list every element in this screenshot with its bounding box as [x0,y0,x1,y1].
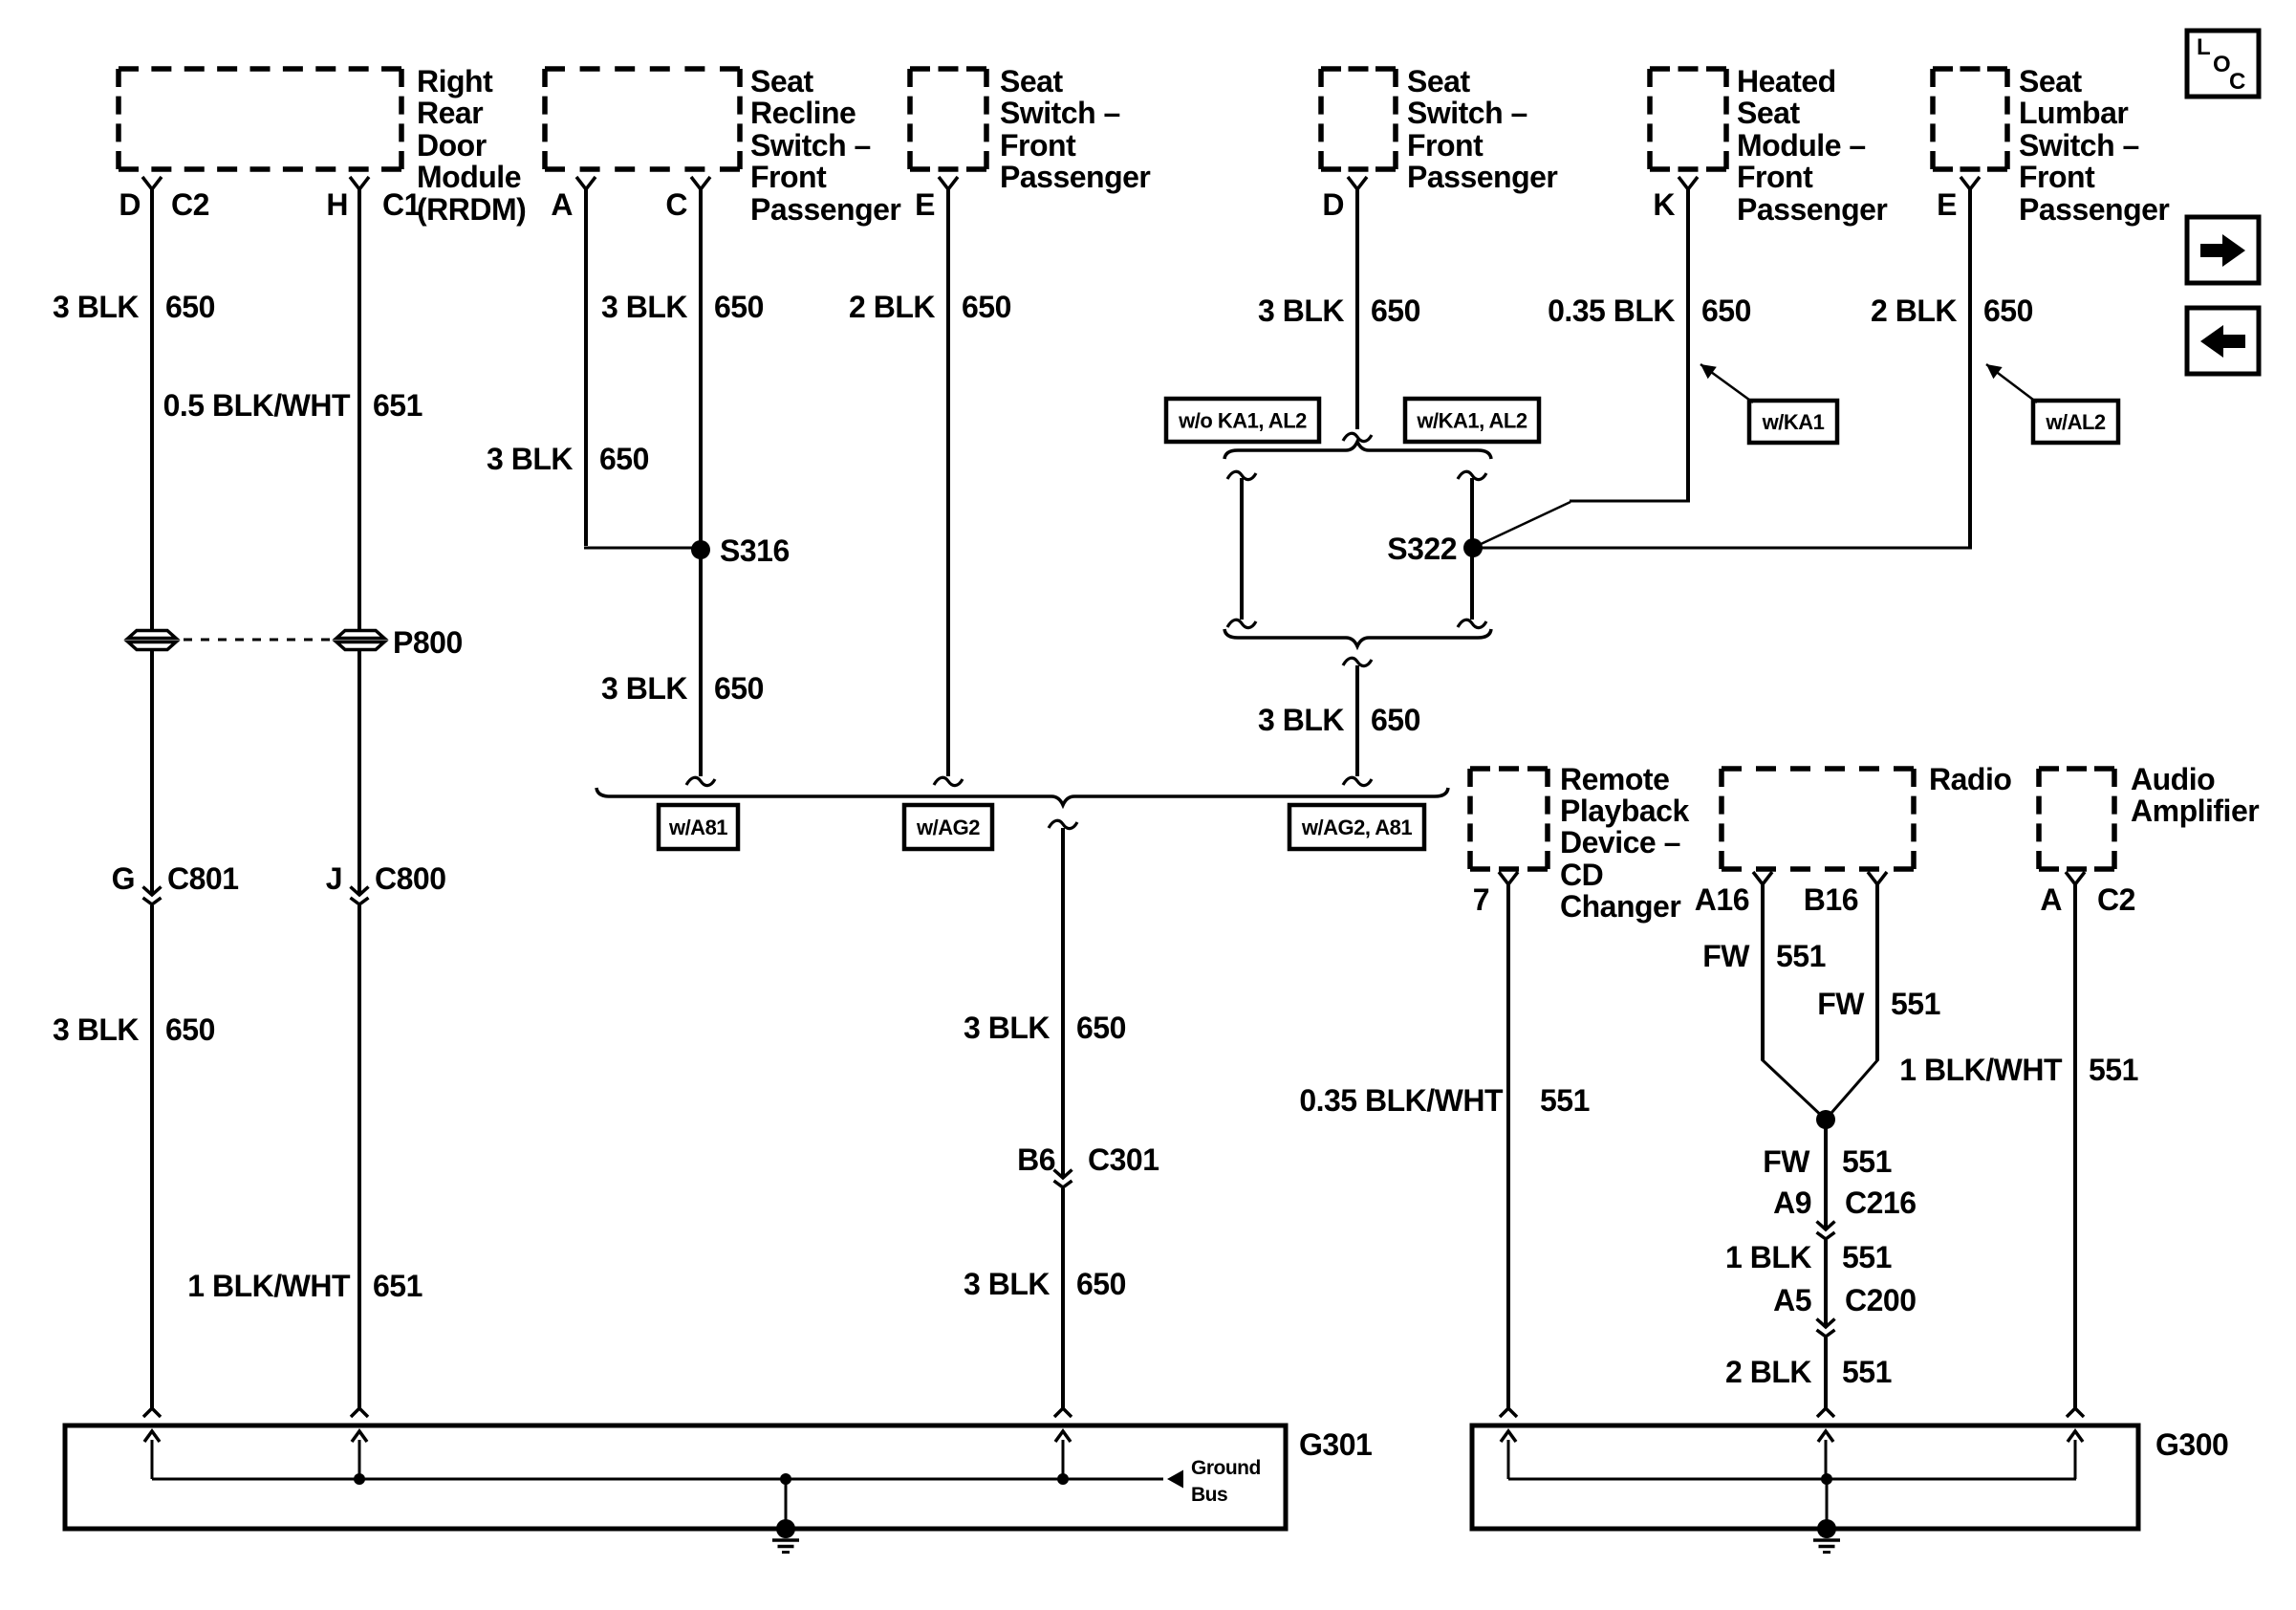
svg-text:Switch –: Switch – [2019,128,2139,163]
label FW 551 (merged wire) [1763,1144,1892,1179]
option box w/KA1 [1749,401,1837,443]
connector C216 pin A9 [1773,1186,1916,1239]
svg-text:2 BLK: 2 BLK [1725,1355,1811,1389]
svg-text:650: 650 [1983,294,2033,328]
svg-text:A: A [2040,882,2062,917]
option pointer w/KA1 [1700,364,1753,402]
svg-text:Playback: Playback [1560,794,1689,828]
svg-text:Passenger: Passenger [1737,192,1887,227]
pin A of recline switch [551,177,596,222]
svg-text:Seat: Seat [1000,64,1063,98]
wire from seat switch pin D [1355,189,1359,429]
svg-text:B16: B16 [1804,882,1858,917]
label 1 BLK 551 [1725,1240,1892,1274]
svg-text:C2: C2 [2097,882,2135,917]
svg-text:G301: G301 [1299,1427,1372,1462]
wire option left branch [1227,471,1256,627]
option box w/AG2 [904,805,992,849]
option box w/KA1, AL2 [1405,399,1539,442]
wire 651 BLK/WHT from RRDM pin H [357,189,361,629]
wire 0.35 BLK/WHT 551 from pin 7 [1506,884,1510,1408]
svg-text:FW: FW [1763,1144,1810,1179]
svg-text:1 BLK/WHT: 1 BLK/WHT [187,1269,351,1303]
svg-text:C2: C2 [171,187,209,222]
svg-text:C800: C800 [375,861,446,896]
legend right-arrow box [2187,217,2259,283]
svg-text:3 BLK: 3 BLK [1258,703,1344,737]
svg-text:1 BLK: 1 BLK [1725,1240,1811,1274]
svg-text:650: 650 [1371,703,1420,737]
svg-text:S322: S322 [1387,532,1457,566]
connector C2 label (amplifier) [2097,882,2135,917]
svg-text:E: E [1937,187,1957,222]
ground bus internal line G300 [1508,1478,2076,1481]
label 3 BLK 650 (below underbrace) [1258,703,1420,737]
svg-text:Seat: Seat [1407,64,1470,98]
wire option right branch through S322 [1458,471,1486,627]
svg-text:551: 551 [2089,1053,2138,1087]
svg-text:A: A [551,187,573,222]
pin A16 of radio [1695,872,1772,917]
svg-text:Remote: Remote [1560,762,1669,796]
svg-text:L: L [2197,34,2210,60]
svg-text:G300: G300 [2155,1427,2228,1462]
svg-text:650: 650 [1701,294,1751,328]
svg-text:3 BLK: 3 BLK [53,290,139,324]
svg-text:Passenger: Passenger [750,192,900,227]
wire below P800 right [357,651,361,895]
svg-text:Seat: Seat [2019,64,2082,98]
label G301 [1299,1427,1372,1462]
svg-text:FW: FW [1817,987,1865,1021]
option pointer w/AL2 [1986,364,2037,402]
wire 650 BLK from bus brace down [1061,828,1065,1178]
ground entry arrow G300 left [1501,1431,1516,1479]
wire 2 BLK 551 to G300 [1824,1338,1828,1408]
ground entry arrow G300 mid [1818,1431,1833,1479]
pin D of RRDM [119,177,162,222]
wire 650 from heated seat pin K [1477,189,1690,546]
label 3 BLK 650 (pin C wire lower) [601,671,764,706]
svg-text:551: 551 [1842,1144,1892,1179]
svg-text:Module –: Module – [1737,128,1866,163]
label 3 BLK 650 (pin A wire) [487,442,649,476]
wire 1 BLK 551 [1824,1240,1828,1327]
svg-text:J: J [326,861,342,896]
svg-text:650: 650 [714,290,764,324]
svg-text:3 BLK: 3 BLK [964,1011,1050,1045]
pin E of lumbar switch [1937,177,1980,222]
svg-text:Passenger: Passenger [1407,160,1557,194]
connector C801 pin G [112,861,239,904]
svg-text:Front: Front [2019,160,2095,194]
svg-text:O: O [2213,52,2230,77]
connector C2 label [171,187,209,222]
label 2 BLK 650 (pin E lumbar wire) [1871,294,2033,328]
label G300 [2155,1427,2228,1462]
svg-text:650: 650 [1076,1011,1126,1045]
svg-text:C301: C301 [1088,1142,1159,1177]
svg-text:Device –: Device – [1560,825,1680,859]
label 3 BLK 650 (bus wire lower) [964,1267,1126,1301]
option overbrace above S322 block [1224,442,1491,459]
svg-text:3 BLK: 3 BLK [601,671,687,706]
svg-text:w/AG2: w/AG2 [916,816,980,839]
svg-text:551: 551 [1776,939,1826,973]
ground bus internal line G301 [152,1478,1163,1481]
connector P800 grommet left [128,631,176,650]
legend left-arrow box [2187,308,2259,374]
wire break below underbrace [1343,658,1372,665]
label 0.5 BLK/WHT 651 (pin H wire) [163,388,422,423]
ground connection G300 [1813,1473,1840,1553]
wire from seat switch pin E [946,189,950,776]
option box w/AL2 [2033,401,2118,443]
switch Seat Switch - Front Passenger (left) [910,69,986,169]
label 1 BLK/WHT 651 lower [187,1269,422,1303]
pin B16 of radio [1804,872,1887,917]
svg-text:CD: CD [1560,858,1603,892]
bus brace (ground bus options) [596,788,1448,805]
label Remote Playback title [1560,762,1689,924]
svg-text:Door: Door [417,128,487,163]
svg-text:Front: Front [750,160,827,194]
svg-text:2 BLK: 2 BLK [1871,294,1957,328]
svg-text:w/A81: w/A81 [668,816,727,839]
svg-text:C1: C1 [382,187,421,222]
label Ground Bus pointer [1167,1457,1261,1506]
svg-text:650: 650 [599,442,649,476]
wire from recline pin A [584,189,701,548]
svg-text:Right: Right [417,64,493,98]
svg-text:w/o KA1, AL2: w/o KA1, AL2 [1178,409,1307,433]
svg-text:A5: A5 [1773,1283,1811,1317]
label 0.35 BLK 650 (pin K wire) [1548,294,1751,328]
pin H of RRDM [326,177,369,222]
svg-text:S316: S316 [720,533,790,568]
svg-text:Passenger: Passenger [2019,192,2169,227]
svg-text:Passenger: Passenger [1000,160,1150,194]
legend LOC box [2187,31,2259,97]
svg-text:650: 650 [962,290,1011,324]
wire dashed link between P800 grommets [184,639,330,642]
svg-text:650: 650 [1076,1267,1126,1301]
wire entry chevron G300 mid [1817,1408,1834,1417]
wire FW 551 from radio pin B16 [1825,884,1878,1120]
wire FW 551 from radio pin A16 [1762,884,1827,1120]
svg-text:FW: FW [1702,939,1750,973]
wire 650 from lumbar pin E [1477,189,1972,548]
svg-text:Module: Module [417,160,521,194]
wire break above bus brace at C wire [686,777,715,785]
module Audio Amplifier [2039,769,2114,869]
svg-text:0.35 BLK: 0.35 BLK [1548,294,1675,328]
svg-text:3 BLK: 3 BLK [964,1267,1050,1301]
switch Seat Switch - Front Passenger (right) [1321,69,1396,169]
svg-text:B6: B6 [1017,1142,1055,1177]
label P800 [393,625,463,660]
svg-text:Rear: Rear [417,96,483,130]
svg-text:551: 551 [1842,1240,1892,1274]
svg-text:651: 651 [373,388,422,423]
label Radio title [1929,762,2011,796]
label FW 551 (A16 wire) [1702,939,1826,973]
wire FW 551 below junction [1824,1120,1828,1229]
svg-text:w/AL2: w/AL2 [2045,410,2106,434]
splice junction of FW wires [1816,1110,1835,1129]
svg-text:7: 7 [1473,882,1489,917]
label RRDM title [417,64,526,227]
wire 651 BLK/WHT to G301 [357,905,361,1408]
svg-text:650: 650 [714,671,764,706]
wire below P800 left [150,651,154,895]
label Audio Amplifier title [2131,762,2259,828]
wire break below pin D wire [1343,433,1372,441]
svg-text:E: E [915,187,935,222]
label 3 BLK 650 (pin C wire upper) [601,290,764,324]
svg-text:C801: C801 [167,861,239,896]
switch Seat Lumbar Switch - Front Passenger [1933,69,2007,169]
ground block G301 box [65,1425,1286,1529]
svg-text:Switch –: Switch – [1000,96,1120,130]
wire break above bus brace at E wire [934,777,963,785]
svg-text:0.5 BLK/WHT: 0.5 BLK/WHT [163,388,351,423]
label 1 BLK/WHT 551 (amplifier) [1899,1053,2138,1087]
svg-text:551: 551 [1540,1083,1590,1118]
label 2 BLK 650 (pin E wire) [849,290,1011,324]
label Seat Lumbar Switch title [2019,64,2169,227]
ground connection G301 [772,1473,799,1553]
module Heated Seat Module - Front Passenger [1650,69,1726,169]
svg-text:Changer: Changer [1560,889,1680,924]
label Seat Switch right title [1407,64,1557,194]
svg-text:D: D [119,187,141,222]
svg-text:Seat: Seat [1737,96,1800,130]
svg-text:C: C [2229,69,2245,95]
svg-text:w/KA1, AL2: w/KA1, AL2 [1416,409,1527,433]
svg-text:650: 650 [165,1012,215,1047]
svg-text:3 BLK: 3 BLK [601,290,687,324]
label 3 BLK 650 (pin D wire) [53,290,215,324]
svg-text:C: C [665,187,687,222]
svg-text:(RRDM): (RRDM) [417,192,526,227]
wire entry chevron G300 left [1500,1408,1517,1417]
svg-text:3 BLK: 3 BLK [53,1012,139,1047]
connector P800 grommet right [336,631,384,650]
label 3 BLK 650 (bus wire upper) [964,1011,1126,1045]
svg-text:C200: C200 [1845,1283,1917,1317]
label 2 BLK 551 [1725,1355,1892,1389]
label FW 551 (B16 wire) [1817,987,1940,1021]
svg-text:Recline: Recline [750,96,856,130]
svg-text:C216: C216 [1845,1186,1917,1220]
module Right Rear Door Module (RRDM) [119,69,401,169]
svg-text:Heated: Heated [1737,64,1836,98]
module Remote Playback Device - CD Changer [1470,769,1548,869]
pin K of heated seat module [1653,177,1698,222]
svg-text:Front: Front [1407,128,1484,163]
wire entry chevron G301 mid [351,1408,368,1417]
svg-text:H: H [326,187,348,222]
label 0.35 BLK/WHT 551 [1299,1083,1590,1118]
wire entry chevron G300 right [2067,1408,2084,1417]
pin E of seat switch [915,177,958,222]
label 3 BLK 650 lower left [53,1012,215,1047]
splice S316 [691,533,790,568]
ground entry arrow G301 mid [352,1431,367,1485]
svg-text:Seat: Seat [750,64,813,98]
svg-text:651: 651 [373,1269,422,1303]
connector C800 pin J [326,861,446,904]
svg-text:Bus: Bus [1191,1484,1227,1506]
label Heated Seat Module title [1737,64,1887,227]
option box w/o KA1, AL2 [1166,399,1319,442]
svg-text:1 BLK/WHT: 1 BLK/WHT [1899,1053,2063,1087]
svg-text:D: D [1322,187,1344,222]
wire 650 BLK from underbrace to bus brace [1355,665,1359,776]
ground entry arrow G300 right [2068,1431,2083,1479]
label Seat Switch title [1000,64,1150,194]
svg-text:551: 551 [1891,987,1940,1021]
svg-text:Switch –: Switch – [1407,96,1527,130]
wire 650 BLK to G301 (left) [150,905,154,1408]
wire entry chevron G301 left [143,1408,161,1417]
ground entry arrow G301 right [1055,1431,1071,1485]
pin A of audio amplifier [2040,872,2085,917]
wire break below bus brace [1049,820,1077,828]
svg-text:0.35 BLK/WHT: 0.35 BLK/WHT [1299,1083,1504,1118]
svg-text:Ground: Ground [1191,1457,1261,1479]
pin 7 of remote playback [1473,872,1518,917]
svg-text:A16: A16 [1695,882,1749,917]
connector C200 pin A5 [1773,1283,1916,1337]
svg-text:650: 650 [165,290,215,324]
label 3 BLK 650 (pin D wire) [1258,294,1420,328]
svg-text:w/KA1: w/KA1 [1762,410,1825,434]
module Radio [1722,769,1914,869]
svg-text:Radio: Radio [1929,762,2011,796]
option underbrace below S322 block [1224,629,1491,646]
wire break above bus brace at D wire [1343,777,1372,785]
pin C of recline switch [665,177,710,222]
wire 1 BLK/WHT 551 from amplifier pin A [2073,884,2077,1408]
wire 650 BLK from C301 to G301 [1061,1188,1065,1408]
wire from recline pin C through S316 [699,189,703,776]
svg-text:Amplifier: Amplifier [2131,794,2259,828]
svg-text:2 BLK: 2 BLK [849,290,935,324]
svg-text:Lumbar: Lumbar [2019,96,2128,130]
svg-text:Front: Front [1000,128,1076,163]
svg-text:Front: Front [1737,160,1813,194]
option box w/AG2, A81 [1289,805,1424,849]
svg-text:P800: P800 [393,625,463,660]
svg-text:650: 650 [1371,294,1420,328]
option box w/A81 [659,805,738,849]
ground block G300 box [1472,1425,2138,1529]
wire 650 BLK from RRDM pin D [150,189,154,629]
svg-text:551: 551 [1842,1355,1892,1389]
ground entry arrow G301 left [144,1431,160,1479]
label Seat Recline Switch title [750,64,900,227]
svg-text:w/AG2, A81: w/AG2, A81 [1301,816,1412,839]
svg-text:3 BLK: 3 BLK [1258,294,1344,328]
connector C301 pin B6 [1017,1142,1159,1187]
splice S322 [1387,532,1483,566]
svg-text:G: G [112,861,135,896]
switch Seat Recline Switch - Front Passenger [545,69,740,169]
svg-text:A9: A9 [1773,1186,1811,1220]
svg-text:3 BLK: 3 BLK [487,442,573,476]
svg-text:K: K [1653,187,1675,222]
wire entry chevron G301 right [1054,1408,1072,1417]
svg-text:Audio: Audio [2131,762,2215,796]
connector C1 label [382,187,421,222]
pin D of seat switch [1322,177,1367,222]
svg-text:Switch –: Switch – [750,128,871,163]
